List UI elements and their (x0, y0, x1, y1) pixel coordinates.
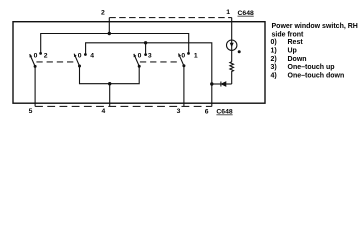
svg-text:0: 0 (34, 53, 38, 60)
wire: S1 output to pin 5 (34, 66, 36, 106)
junction: bus C to contact 3 drop (144, 41, 147, 44)
wire: diode to node (212, 83, 221, 85)
svg-text:Up: Up (288, 47, 297, 54)
switch S3 contact dot (144, 53, 147, 56)
svg-text:1): 1) (271, 47, 277, 54)
mechanical linkage dashed line (36, 61, 76, 63)
svg-text:Rest: Rest (288, 39, 304, 46)
junction: pin 4 on output bus (108, 82, 111, 85)
switch S4 lever with arrow (179, 54, 184, 66)
pin 1 lead wire (231, 18, 233, 62)
svg-text:3: 3 (148, 53, 152, 60)
svg-text:4: 4 (90, 53, 94, 60)
wire: resistor to diode (226, 83, 232, 85)
svg-text:1: 1 (194, 53, 198, 60)
svg-text:0): 0) (271, 39, 277, 46)
wire: S2 output down and bus to pin 4 (80, 66, 140, 84)
svg-text:1: 1 (226, 9, 230, 16)
svg-text:Down: Down (288, 56, 307, 63)
svg-text:Power window switch, RH: Power window switch, RH (272, 23, 358, 30)
svg-text:2): 2) (271, 56, 277, 63)
one-touch unit U1 circle (227, 40, 237, 50)
svg-text:4: 4 (102, 108, 106, 115)
switch S2 contact dot (84, 53, 87, 56)
pin 2 lead wire (108, 18, 110, 34)
wire: drop to switch 3 contact (145, 43, 147, 55)
component box: power window switch (13, 22, 265, 104)
switch S1 lever with arrow (30, 54, 35, 66)
switch S2 lever with arrow (74, 54, 79, 66)
svg-text:3: 3 (177, 108, 181, 115)
wire: dashed external link pin2 to pin1 (109, 17, 231, 19)
mechanical linkage dashed line S3-S4 (140, 61, 177, 63)
svg-text:0: 0 (78, 53, 82, 60)
junction: diode branch on pin-6 wire (210, 82, 213, 85)
resistor R1 (230, 62, 234, 84)
svg-text:One–touch up: One–touch up (288, 64, 335, 71)
wire: S4 output to pin 3 (183, 66, 185, 107)
wire: bus C feeding contacts 4 and 3 and one-touch unit (86, 43, 212, 107)
svg-text:0: 0 (181, 53, 185, 60)
svg-text:3): 3) (271, 64, 277, 71)
one-touch unit marker dot (238, 50, 241, 53)
svg-text:C648: C648 (216, 109, 232, 116)
svg-text:side front: side front (272, 32, 305, 39)
svg-text:2: 2 (101, 10, 105, 17)
wire: bus B feeding contacts 2 and 1 (41, 34, 189, 54)
svg-text:2: 2 (44, 53, 48, 60)
svg-text:6: 6 (205, 109, 209, 116)
svg-text:5: 5 (29, 108, 33, 115)
wire: pin 4 drop (109, 84, 111, 107)
svg-text:C648: C648 (238, 10, 254, 17)
junction: pin2 on bus B (108, 32, 111, 35)
switch S4 contact dot (187, 52, 190, 55)
one-touch unit arrow (230, 43, 234, 47)
svg-text:4): 4) (271, 72, 277, 79)
switch S1 contact dot (39, 52, 42, 55)
switch S3 lever with arrow (134, 54, 139, 66)
diode D1 (221, 82, 226, 87)
svg-text:One–touch down: One–touch down (288, 72, 345, 79)
wire: dashed external bottom link pins 5-4-3-6 (35, 105, 212, 107)
svg-text:0: 0 (138, 53, 142, 60)
